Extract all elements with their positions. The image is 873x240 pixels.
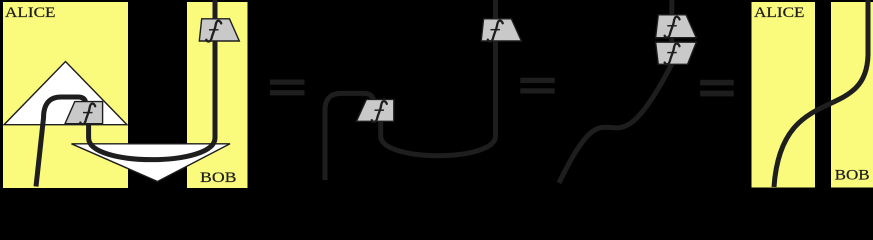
Alice region (yellow panel) — [3, 2, 128, 188]
box f (top, over wire) — [481, 19, 521, 41]
wire (cup through Bob box to top) — [89, 0, 215, 160]
box f (Bob's box, over wire) — [199, 19, 239, 41]
label f (lower box) — [665, 44, 680, 65]
box f-adjoint (lower, flipped) — [656, 42, 697, 64]
wire (through boxes, S-curve, under boxes) — [559, 0, 672, 183]
label f (upper box) — [665, 17, 680, 38]
cup triangle (effect) — [72, 144, 231, 182]
wire (S-curve Alice to Bob) — [774, 0, 868, 187]
cap triangle (state) — [4, 62, 127, 125]
Alice region (yellow panel) — [752, 2, 816, 188]
Bob region (yellow panel) — [831, 2, 873, 188]
equals sign 2 — [520, 78, 554, 94]
equals sign 1 — [270, 80, 305, 96]
label f (top right box) — [206, 21, 221, 42]
wire (cup from f to top) — [381, 0, 496, 156]
box f (upper) — [656, 15, 697, 38]
Bob region (yellow panel) — [187, 2, 248, 188]
label f (top box) — [488, 21, 503, 42]
label f (inside cap) — [80, 104, 95, 125]
box f-transpose (inside cap triangle) — [65, 102, 103, 124]
svg-text:ALICE: ALICE — [754, 5, 805, 21]
svg-text:BOB: BOB — [200, 170, 237, 186]
wire (Alice input, hooked) — [36, 97, 86, 187]
wire (hooked input) — [325, 93, 374, 180]
svg-text:ALICE: ALICE — [5, 5, 56, 21]
box f-transpose (lower) — [356, 99, 393, 121]
label f (lower box) — [372, 101, 387, 122]
equals sign 3 — [700, 80, 734, 97]
svg-text:BOB: BOB — [835, 167, 870, 183]
